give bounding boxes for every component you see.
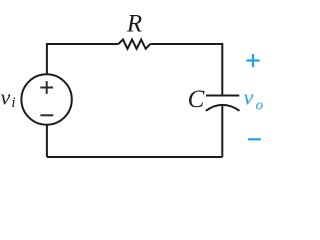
capacitor C bottom curved plate: [206, 105, 240, 111]
svg-text:o: o: [256, 97, 264, 113]
wire from bottom to source bottom: [46, 125, 48, 158]
capacitor C top plate: [206, 95, 239, 97]
svg-text:R: R: [126, 11, 142, 38]
wire top-left from source top to resistor: [47, 44, 119, 75]
plus sign inside source: [40, 81, 53, 94]
cyan minus (output polarity): [248, 138, 261, 140]
wire below capacitor: [221, 105, 223, 157]
svg-text:v: v: [244, 84, 254, 109]
svg-text:i: i: [11, 95, 15, 111]
minus sign inside source: [40, 114, 53, 116]
svg-text:v: v: [1, 85, 11, 110]
svg-text:C: C: [188, 86, 205, 113]
bottom wire: [47, 156, 222, 158]
voltage source circle: [21, 74, 71, 124]
cyan plus (output polarity): [246, 54, 259, 67]
wire top-right from resistor to capacitor top plate: [150, 44, 222, 95]
resistor R: [118, 40, 150, 49]
